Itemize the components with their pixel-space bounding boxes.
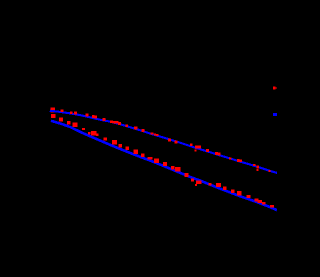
red legend line tail bbox=[275, 88, 277, 89]
red data points, upper series bbox=[60, 110, 270, 172]
red data points, lower series bbox=[51, 114, 274, 208]
upper blue fit line bbox=[50, 111, 277, 173]
lower blue fit line bbox=[51, 121, 277, 210]
first data point marker of upper series (red, under line) bbox=[50, 108, 55, 113]
red legend marker fragment (right edge) bbox=[273, 87, 276, 90]
blue legend marker fragment (right edge) bbox=[273, 113, 277, 116]
